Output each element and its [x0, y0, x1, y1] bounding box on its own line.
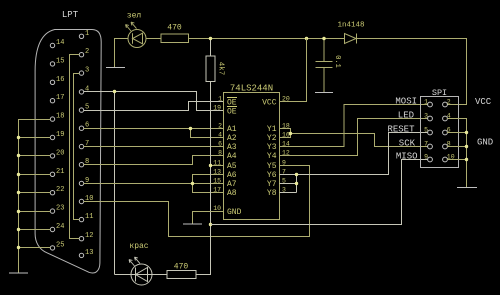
- svg-text:3: 3: [85, 67, 89, 75]
- svg-text:7: 7: [424, 141, 428, 148]
- pin 22: [50, 191, 54, 195]
- wire A5 stub from pull-up net: [211, 165, 224, 167]
- pin 5: [79, 108, 83, 112]
- wire pin20 to bus: [19, 155, 51, 157]
- IC pin numbers right: [282, 96, 290, 194]
- pin 23: [50, 209, 54, 213]
- wire A7 to A8 tie: [193, 184, 224, 193]
- wire capacitor top lead: [323, 39, 325, 62]
- svg-text:RESET: RESET: [387, 125, 415, 135]
- svg-text:17: 17: [213, 187, 221, 194]
- svg-text:2: 2: [447, 99, 451, 106]
- junction pin4 / red LED: [113, 90, 116, 93]
- pin 18: [50, 117, 54, 121]
- junction Y7 tie: [295, 182, 298, 185]
- ground bar capacitor: [315, 92, 333, 94]
- svg-text:4: 4: [85, 85, 89, 93]
- wire pin6 to A1: [84, 128, 224, 130]
- svg-text:LPT: LPT: [62, 10, 79, 20]
- svg-text:Y7: Y7: [267, 180, 277, 189]
- svg-text:23: 23: [56, 205, 64, 213]
- pin 11: [79, 217, 83, 221]
- svg-text:17: 17: [56, 94, 64, 102]
- junction dots left: [17, 90, 194, 249]
- wire IC GND to ground: [193, 212, 224, 225]
- wire pin8 to A4: [84, 156, 224, 165]
- wire pin23 to bus: [19, 211, 51, 213]
- resistor 4k7: [206, 56, 215, 82]
- junction Y1/Y2: [289, 132, 292, 135]
- junction dots top rail: [209, 37, 326, 226]
- svg-text:SPI: SPI: [432, 88, 447, 98]
- svg-text:A1: A1: [227, 125, 237, 134]
- wire pin2 to pin12: [70, 55, 80, 239]
- wire pin24 to bus: [19, 229, 51, 231]
- wire pin10 to Y5: [84, 166, 310, 237]
- junction MISO/4k7/red LED: [209, 223, 212, 226]
- pin 7: [428, 144, 433, 149]
- svg-text:A8: A8: [227, 189, 237, 198]
- junction bus pin24: [17, 228, 20, 231]
- svg-text:A7: A7: [227, 180, 237, 189]
- svg-text:14: 14: [56, 39, 64, 47]
- svg-text:15: 15: [56, 57, 64, 65]
- svg-text:крас: крас: [129, 242, 148, 251]
- wire pin18 to ground bus: [19, 120, 51, 273]
- svg-text:MISO: MISO: [396, 152, 418, 162]
- OE overlines: [227, 98, 237, 107]
- junction vcc riser/rail: [305, 37, 308, 40]
- pin 10: [79, 199, 83, 203]
- svg-text:4k7: 4k7: [217, 62, 225, 76]
- wire top rail resistor to diode: [189, 38, 345, 40]
- wire pin25 to bus: [19, 247, 51, 249]
- svg-text:24: 24: [56, 223, 64, 231]
- resistor 470 (top): [161, 34, 189, 43]
- svg-text:LED: LED: [398, 111, 414, 121]
- pin 13: [79, 253, 83, 257]
- pin 3: [428, 116, 433, 121]
- wire 4k7 bottom lead down to MISO junction: [210, 82, 212, 225]
- LPT pin number labels: [56, 30, 93, 257]
- svg-text:VCC: VCC: [475, 97, 492, 107]
- wire SPI MISO pin9 to pull-up junction: [211, 160, 428, 225]
- pin 20: [50, 154, 54, 158]
- svg-text:Y3: Y3: [267, 143, 277, 152]
- svg-text:12: 12: [85, 232, 93, 240]
- pin 16: [50, 80, 54, 84]
- SPI pin numbers: [424, 99, 455, 161]
- svg-text:11: 11: [213, 160, 221, 167]
- wire pin10 to gnd rail: [447, 159, 467, 161]
- pin 1: [428, 102, 433, 107]
- resistor 470 (bottom): [167, 271, 196, 279]
- svg-text:16: 16: [56, 76, 64, 84]
- svg-text:Y8: Y8: [267, 189, 277, 198]
- signal labels: [387, 97, 417, 162]
- pin 6: [443, 130, 448, 135]
- wire pin8 to gnd rail: [447, 146, 467, 148]
- svg-text:0.1: 0.1: [333, 55, 341, 68]
- junction bus pin22: [17, 191, 20, 194]
- wire pin6 to gnd rail: [447, 132, 467, 134]
- svg-text:VCC: VCC: [262, 99, 277, 108]
- junction A6/A7/A8: [191, 182, 194, 185]
- svg-text:MOSI: MOSI: [395, 97, 417, 107]
- wire pin7 to A3: [84, 146, 224, 148]
- svg-text:19: 19: [56, 131, 64, 139]
- wire pin21 to bus: [19, 174, 51, 176]
- svg-text:GND: GND: [477, 138, 493, 148]
- wire Y2 jog: [280, 134, 291, 138]
- svg-text:4: 4: [218, 132, 222, 139]
- svg-text:2: 2: [85, 48, 89, 56]
- junction 4k7/rail: [209, 37, 212, 40]
- pin 10: [443, 157, 448, 162]
- svg-text:Y2: Y2: [267, 134, 277, 143]
- pin 14: [50, 43, 54, 47]
- wire A1 to A2 tie: [191, 129, 224, 138]
- IC pin numbers left: [213, 96, 222, 213]
- svg-text:22: 22: [56, 186, 64, 194]
- svg-text:13: 13: [213, 169, 221, 176]
- LPT pin circles left column 14-25: [50, 34, 83, 258]
- svg-text:A5: A5: [227, 162, 237, 171]
- wire Y3 to SPI MOSI pin1: [280, 105, 428, 147]
- pin 8: [79, 163, 83, 167]
- svg-text:1n4148: 1n4148: [337, 22, 364, 30]
- svg-text:1: 1: [85, 30, 89, 38]
- capacitor 0.1: [316, 62, 333, 68]
- svg-text:9: 9: [424, 154, 428, 161]
- pin 9: [79, 181, 83, 185]
- junction bus pin19: [17, 136, 20, 139]
- ground bar IC: [183, 223, 202, 225]
- wire rail diode to SPI VCC pin2: [357, 39, 467, 105]
- pin 19: [50, 135, 54, 139]
- svg-text:3: 3: [424, 113, 428, 120]
- wire pin4 to IC pin19 OE: [84, 92, 224, 111]
- junction A5 pull-up: [209, 164, 212, 167]
- svg-text:20: 20: [56, 149, 64, 157]
- pin 24: [50, 227, 54, 231]
- svg-text:21: 21: [56, 168, 64, 176]
- svg-text:15: 15: [213, 178, 221, 185]
- pin 1: [79, 34, 83, 38]
- ground bar SPI: [457, 187, 477, 189]
- wire red LED riser: [114, 92, 116, 275]
- pin 3: [79, 71, 83, 75]
- svg-text:2: 2: [218, 123, 222, 130]
- svg-text:10: 10: [213, 205, 221, 212]
- wire pin4 to gnd rail: [447, 119, 467, 188]
- svg-text:GND: GND: [227, 208, 242, 217]
- wire Y6 to SPI RESET pin5: [280, 133, 428, 175]
- wire Y1 jog: [280, 129, 291, 134]
- svg-text:13: 13: [85, 249, 93, 257]
- pin 12: [79, 237, 83, 241]
- svg-text:11: 11: [85, 213, 93, 221]
- IC U1 74LS244N body: [224, 93, 280, 220]
- pin 6: [79, 126, 83, 130]
- pin 5: [428, 130, 433, 135]
- IC pin names right: [262, 99, 277, 199]
- svg-text:470: 470: [174, 263, 189, 272]
- wire 4k7 top lead: [210, 39, 212, 57]
- svg-text:1: 1: [218, 96, 222, 103]
- wire A7 to A6 tie: [193, 175, 224, 184]
- wire Y6/Y7/Y8 tie: [296, 175, 298, 193]
- pin 4: [79, 90, 83, 94]
- svg-text:5: 5: [424, 127, 428, 134]
- svg-text:25: 25: [56, 241, 64, 249]
- SPI pin circles: [428, 102, 448, 162]
- ground bar green LED: [106, 67, 125, 69]
- svg-text:зел: зел: [127, 12, 142, 21]
- junction A1/A2: [189, 127, 192, 130]
- diode 1n4148: [345, 34, 357, 44]
- junction bus pin21: [17, 173, 20, 176]
- junction cap/rail: [322, 37, 325, 40]
- svg-text:74LS244N: 74LS244N: [230, 84, 273, 94]
- wire pin9 to A7: [84, 183, 224, 185]
- LED green (зел): [126, 22, 147, 47]
- pin 8: [443, 144, 448, 149]
- svg-text:8: 8: [218, 150, 222, 157]
- pin 15: [50, 62, 54, 66]
- junction bus pin23: [17, 210, 20, 213]
- pin 17: [50, 99, 54, 103]
- pin 4: [443, 116, 448, 121]
- junction gnd pin8: [465, 145, 468, 148]
- wire Y1Y2 to SPI SCK pin7: [291, 134, 428, 147]
- pin 7: [79, 144, 83, 148]
- svg-text:Y6: Y6: [267, 171, 277, 180]
- IC pin names left: [227, 99, 242, 218]
- wire Y7 stub: [280, 183, 297, 185]
- LED red (крас): [129, 257, 152, 285]
- svg-text:9: 9: [282, 160, 286, 167]
- svg-text:A4: A4: [227, 152, 237, 161]
- svg-text:Y1: Y1: [267, 125, 277, 134]
- pin 2: [443, 102, 448, 107]
- junction bus pin25: [17, 246, 20, 249]
- svg-text:1: 1: [424, 99, 428, 106]
- pin 21: [50, 172, 54, 176]
- pin 9: [428, 157, 433, 162]
- pin 2: [79, 53, 83, 57]
- ground bar LPT bus: [9, 272, 28, 274]
- wire green LED left lead to ground: [115, 39, 129, 68]
- junction gnd pin10: [465, 158, 468, 161]
- svg-text:19: 19: [213, 105, 221, 112]
- SPI right-side wires: [447, 119, 467, 188]
- wire pin5 to IC pin1 OE: [84, 102, 224, 111]
- wire Y4 to SPI LED pin3: [280, 119, 428, 156]
- junction bus pin20: [17, 154, 20, 157]
- svg-text:Y4: Y4: [267, 152, 277, 161]
- wire red LED chain: junction down, resistor, to LED: [115, 225, 211, 275]
- connector LPT outline: [35, 30, 101, 273]
- junction gnd pin6: [465, 131, 468, 134]
- wire Y8 stub: [280, 192, 297, 194]
- svg-text:18: 18: [56, 113, 64, 121]
- wire VCC pin20 to rail: [280, 39, 307, 102]
- pin 25: [50, 246, 54, 250]
- wire pin22 to bus: [19, 192, 51, 194]
- wire pin19 to bus: [19, 137, 51, 139]
- svg-text:Y5: Y5: [267, 162, 277, 171]
- wire green LED right lead: [146, 38, 162, 40]
- svg-text:A6: A6: [227, 171, 237, 180]
- svg-text:A2: A2: [227, 134, 237, 143]
- svg-text:6: 6: [218, 141, 222, 148]
- svg-text:SCK: SCK: [399, 139, 416, 149]
- svg-text:OE: OE: [227, 108, 237, 117]
- junction Y6 tie: [295, 173, 298, 176]
- svg-text:470: 470: [167, 24, 182, 33]
- connector SPI body: [421, 97, 459, 168]
- wire pin3 to pin11: [74, 74, 80, 220]
- svg-text:A3: A3: [227, 143, 237, 152]
- wire capacitor bottom lead: [323, 68, 325, 93]
